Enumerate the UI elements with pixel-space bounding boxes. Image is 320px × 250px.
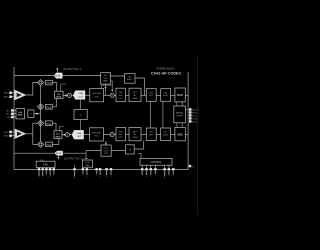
svg-text:DIG: DIG — [119, 131, 123, 133]
svg-text:MUX: MUX — [18, 115, 23, 117]
pin SDA — [145, 165, 147, 176]
wire tag T1 to box U10 — [62, 75, 100, 77]
pin VA — [45, 168, 47, 176]
svg-text:HP/LINE: HP/LINE — [92, 93, 101, 95]
wire D1 to E1 — [171, 94, 175, 96]
svg-text:FILT: FILT — [149, 95, 154, 97]
pin SCL — [141, 165, 143, 176]
svg-text:PORT: PORT — [177, 115, 183, 117]
svg-text:OSC: OSC — [40, 160, 45, 162]
wire tag T2 segment — [14, 152, 55, 154]
svg-text:XTAL: XTAL — [43, 164, 49, 167]
box A2 — [116, 127, 126, 140]
wire MUX C to mult M3 — [62, 134, 65, 136]
wire box F2 up to B2 — [134, 141, 144, 149]
svg-text:LINE: LINE — [77, 133, 82, 135]
box PGA3 — [46, 121, 53, 126]
wire box VOL2 to mult M4 — [103, 134, 110, 136]
box C1 — [146, 89, 156, 102]
svg-text:DEM: DEM — [133, 98, 138, 100]
pin VQ — [82, 167, 84, 175]
pin TST — [172, 168, 174, 176]
box B1 — [129, 88, 141, 101]
svg-text:STEREO AUDIO: STEREO AUDIO — [157, 67, 175, 70]
svg-text:SHIFT: SHIFT — [127, 79, 134, 81]
box C2 — [146, 128, 156, 141]
wire left bus vertical — [13, 67, 15, 170]
faint page edge — [197, 55, 199, 215]
svg-text:ADC: ADC — [177, 132, 184, 136]
box U11 level shift — [125, 74, 135, 84]
op-amp U1 — [15, 90, 26, 100]
wire bottom rail — [14, 169, 188, 171]
wire B1 to C1 — [141, 94, 146, 96]
wire E1 to serial port stubs — [177, 102, 182, 106]
box control — [140, 158, 172, 165]
svg-text:OUT: OUT — [77, 136, 82, 138]
svg-text:CS42 HP CODEC: CS42 HP CODEC — [151, 72, 182, 76]
wire D2 to E2 — [171, 134, 175, 136]
wire right bus vertical — [187, 72, 189, 170]
arrow down from tag T2 — [57, 155, 59, 159]
svg-text:LINE: LINE — [6, 117, 11, 119]
svg-text:AIN2+: AIN2+ — [4, 131, 10, 134]
svg-text:MCLK: MCLK — [192, 122, 198, 124]
wire D1 to D2 vertical — [162, 101, 164, 128]
multiplier M1 — [67, 93, 71, 97]
svg-text:(OUTPUT FIG. 2): (OUTPUT FIG. 2) — [63, 68, 82, 71]
svg-text:LINE: LINE — [78, 93, 83, 95]
wire E1 to right bus — [185, 94, 188, 96]
wire box U10 sidetone to mult M2 — [102, 81, 114, 92]
svg-text:MUTE: MUTE — [56, 153, 62, 155]
wire top chain left segment — [14, 75, 54, 77]
connector tag T2 — [55, 151, 63, 155]
pin FILT — [73, 165, 75, 178]
pin CS — [95, 168, 97, 175]
svg-text:MUTE: MUTE — [55, 76, 61, 78]
svg-text:AIN1−: AIN1− — [4, 96, 10, 99]
wire junction down to ref box — [85, 151, 88, 159]
pin LRCK — [189, 117, 198, 120]
box D2 — [161, 128, 171, 141]
svg-text:REF: REF — [85, 165, 90, 167]
pin AIN2- — [4, 135, 15, 138]
svg-text:DAC: DAC — [177, 93, 184, 97]
pin VLS corner — [189, 165, 196, 169]
wire PGA2 to MUX A bottom — [52, 99, 56, 107]
summer column wire — [40, 86, 42, 142]
svg-text:SDOUT: SDOUT — [192, 110, 200, 112]
svg-text:PGA: PGA — [46, 123, 51, 126]
wire box U11 right then down to row1 — [135, 78, 145, 95]
svg-text:PGA: PGA — [46, 82, 51, 85]
wire filter F1 to box F2 — [111, 150, 125, 152]
pin AIN2+ — [4, 131, 15, 134]
pin MCLK — [189, 120, 198, 123]
summer S3 — [38, 120, 44, 126]
wire B2 to C2 — [141, 134, 146, 136]
pin AIN1- — [4, 96, 15, 99]
summer S2 — [38, 104, 44, 110]
junction dot — [65, 95, 67, 97]
svg-text:AMP: AMP — [103, 80, 108, 83]
box PGA1 — [46, 80, 53, 85]
box filter F1 — [101, 145, 111, 156]
wire serial port to E2 stubs — [177, 123, 182, 128]
connector tag T4 — [72, 130, 84, 139]
wire C2 to D2 — [156, 134, 161, 136]
svg-text:MOD: MOD — [163, 95, 168, 97]
svg-text:DEM: DEM — [133, 137, 138, 139]
wire tag T3 to VCOM — [80, 99, 82, 109]
op-amp U2 — [15, 129, 26, 138]
box MUX C — [54, 131, 62, 139]
wire PGA5 to summer column — [34, 113, 41, 115]
svg-text:PGA: PGA — [46, 106, 51, 109]
box PGA5 — [28, 110, 34, 118]
wire box U10 to box U11 — [110, 75, 124, 77]
svg-text:VOL: VOL — [95, 96, 100, 98]
pin XTO — [42, 168, 44, 178]
svg-text:SERIAL: SERIAL — [176, 111, 184, 114]
box MUX B input mux — [16, 109, 24, 119]
svg-text:DIG: DIG — [119, 92, 123, 94]
svg-text:MUX: MUX — [56, 136, 61, 138]
svg-text:OUT: OUT — [78, 96, 83, 98]
wire mult M3 to tag T4 — [69, 134, 72, 136]
wire PGA3 to MUX C top — [52, 123, 56, 131]
wire MUX A to mult M1 — [63, 94, 67, 96]
pin VD — [53, 168, 55, 176]
wire tag T2 to junction — [63, 152, 86, 154]
box PGA2 — [46, 105, 53, 110]
multiplier M4 — [110, 133, 114, 137]
pin MIC1 — [6, 109, 16, 112]
stub above MUX C — [59, 127, 63, 131]
wire mult M2 to box A1 — [114, 94, 116, 96]
pin VD2 — [168, 165, 170, 176]
box B2 — [129, 127, 141, 140]
pin MIC2 — [6, 113, 16, 116]
wire tag T4 to box VOL2 — [84, 134, 90, 136]
wire box F2 to control box — [138, 153, 141, 158]
svg-text:VOL: VOL — [94, 136, 99, 138]
svg-text:MOD: MOD — [163, 135, 168, 137]
box U10 HP amp — [101, 73, 111, 84]
arrow up from tag T1 — [56, 68, 58, 73]
pin AIN1+ — [4, 92, 15, 95]
pin AD0 — [99, 168, 101, 177]
box VREF — [82, 160, 92, 167]
pin SDIN — [189, 111, 197, 114]
svg-text:VOLT: VOLT — [85, 162, 91, 164]
svg-text:(OUTPUT FIG. 2): (OUTPUT FIG. 2) — [64, 157, 83, 160]
svg-text:PGA: PGA — [46, 144, 51, 147]
summer S4 — [38, 141, 44, 147]
wire tag T3 to box VOL1 — [85, 94, 90, 96]
box VCOM mid — [74, 109, 87, 119]
multiplier M3 — [65, 133, 69, 137]
pin SDOUT — [189, 108, 200, 111]
box PGA4 — [46, 142, 53, 147]
svg-text:HP/LINE: HP/LINE — [92, 132, 101, 134]
box MUX A — [55, 91, 63, 98]
wire box U10 bottom stub with arrow — [104, 84, 106, 95]
wire mult M4 to box A2 — [114, 134, 116, 136]
box E1 DAC — [175, 88, 185, 102]
pin RST — [110, 168, 112, 176]
wire PGA1 to MUX A top — [52, 83, 56, 92]
wire A2 to B2 — [126, 134, 130, 136]
svg-text:DIV: DIV — [104, 153, 108, 155]
connector tag T1 — [54, 73, 63, 79]
pin AGND — [49, 168, 51, 178]
wire clock row left — [86, 150, 101, 152]
pin AD1 — [105, 168, 107, 177]
pin LINEIN — [6, 116, 16, 119]
wire VCOM to tag T4 — [80, 120, 82, 131]
svg-text:CLK: CLK — [104, 151, 109, 153]
pin INT — [150, 165, 152, 176]
wire mult M1 to tag T3 — [72, 94, 74, 96]
svg-text:AIN2−: AIN2− — [4, 135, 10, 138]
wire C1 to D1 — [156, 94, 161, 96]
pin SCLK — [189, 114, 198, 117]
box F2 — [126, 145, 135, 154]
pin VL — [154, 165, 156, 175]
wire serial to bus — [185, 109, 188, 111]
box E2 ADC — [175, 127, 185, 140]
wire C1 to C2 vertical — [149, 101, 151, 128]
box VOL2 — [90, 128, 104, 141]
wire VOL2 to filter box arrow — [105, 141, 107, 145]
multiplier M2 — [110, 93, 114, 97]
stub above MUX A — [61, 84, 66, 91]
wire E2 to right bus — [185, 134, 188, 136]
pin DGND — [163, 165, 165, 178]
wire op-amp U1 output to summer S1 — [26, 83, 38, 95]
box VOL1 — [90, 89, 104, 102]
box A1 — [116, 88, 126, 101]
svg-text:SCLK: SCLK — [192, 116, 198, 118]
svg-text:SDIN: SDIN — [192, 113, 197, 115]
wire PGA4 to MUX C bottom — [52, 138, 59, 144]
summer S1 — [38, 80, 44, 86]
svg-text:FILT: FILT — [149, 135, 154, 137]
wire op-amp U2 output to summers S3 S4 — [26, 123, 38, 144]
pin XTI — [38, 168, 40, 178]
wire box VOL1 to mult M2 — [104, 94, 111, 96]
box XTAL osc — [36, 161, 55, 167]
wire A1 to B1 — [126, 94, 130, 96]
junction dot — [64, 134, 66, 136]
pin REF — [86, 167, 88, 176]
svg-text:CONTROL: CONTROL — [150, 162, 162, 164]
junction dot — [36, 113, 38, 115]
svg-text:MUX: MUX — [56, 97, 61, 99]
svg-text:LRCK: LRCK — [192, 119, 198, 121]
connector tag T3 — [73, 91, 85, 100]
box serial port — [174, 106, 186, 123]
box D1 — [161, 89, 171, 102]
svg-text:AIN1+: AIN1+ — [4, 92, 10, 95]
